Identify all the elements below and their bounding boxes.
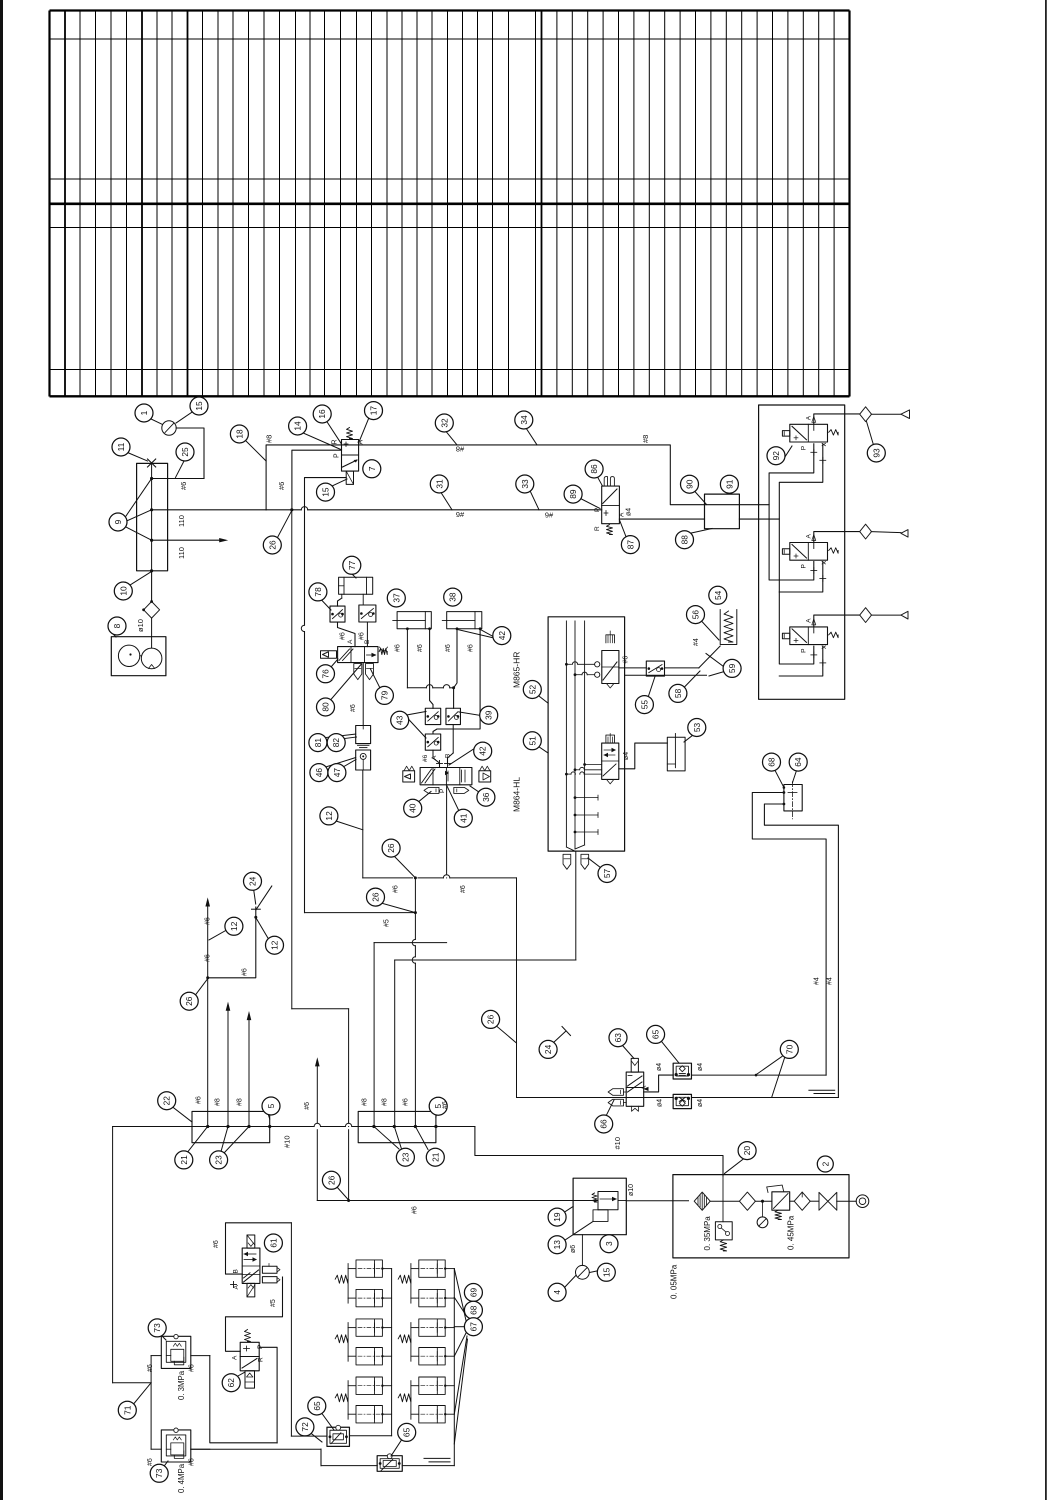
svg-text:18: 18	[234, 429, 244, 439]
svg-text:ø4: ø4	[697, 1099, 704, 1107]
item 46/47 box with drain	[356, 750, 371, 770]
clamp cylinder col2 row3	[419, 1319, 445, 1336]
leader 22	[172, 1107, 192, 1123]
node 26 balloon	[367, 888, 385, 906]
wire 63 A out	[644, 1075, 674, 1092]
internal rails M865	[565, 621, 567, 847]
svg-text:1: 1	[139, 410, 149, 415]
svg-text:0. 3MPa: 0. 3MPa	[177, 1370, 186, 1400]
node 61 balloon	[264, 1234, 282, 1252]
node 42 balloon	[474, 742, 492, 760]
svg-text:ø10: ø10	[136, 619, 145, 632]
node 5 balloon	[429, 1097, 447, 1115]
valve 92b blocked-port marks	[811, 570, 817, 572]
leader 23Rb	[394, 1127, 402, 1151]
pressure switch 0.35MPa	[715, 1222, 732, 1240]
svg-text:23: 23	[214, 1155, 224, 1165]
wire gauge to manifold	[176, 428, 204, 479]
svg-text:#6: #6	[467, 644, 474, 652]
wire 0.3MPa circuit drop	[290, 1223, 292, 1436]
cylinder 77	[339, 577, 373, 594]
svg-text:77: 77	[347, 560, 357, 570]
valve 92c blocked-port marks	[811, 654, 817, 656]
svg-text:#8: #8	[641, 435, 650, 443]
svg-text:41: 41	[458, 813, 468, 823]
valve 86 solenoid tabs	[604, 477, 607, 487]
wire 0.3MPa loop to valve 62 P	[210, 1356, 277, 1443]
valve 92c body	[790, 627, 828, 645]
flow control 39	[446, 708, 461, 724]
node 38 balloon	[444, 588, 462, 606]
rail pilot supply 2	[779, 519, 814, 664]
leader 42 cylinders	[458, 630, 495, 639]
leader 41	[447, 786, 460, 812]
wire 55 to corner	[665, 667, 699, 669]
leader 8	[113, 634, 116, 637]
wire 65c to left cylinder rail	[350, 1435, 392, 1437]
node 36 balloon	[477, 788, 495, 806]
svg-text:51: 51	[527, 736, 537, 746]
wire W7	[395, 959, 576, 961]
pipe break marks 70	[809, 1089, 835, 1091]
cylinder port dots	[406, 627, 409, 630]
svg-text:P: P	[439, 789, 446, 793]
node 15 balloon	[317, 483, 335, 501]
FRL filter (striped diamond)	[694, 1192, 710, 1210]
valve B side wire	[779, 562, 823, 593]
filter diamond	[144, 602, 160, 619]
valve station box right	[759, 405, 845, 699]
valve M864-HL body	[420, 768, 472, 785]
leader 51	[537, 746, 548, 754]
svg-text:59: 59	[727, 663, 737, 673]
svg-text:26: 26	[326, 1175, 336, 1185]
node 47 balloon	[328, 764, 346, 782]
svg-text:21: 21	[179, 1155, 189, 1165]
leader 56	[701, 621, 719, 641]
svg-text:#6: #6	[340, 632, 347, 640]
node 12 balloon	[320, 807, 338, 825]
svg-text:54: 54	[713, 590, 723, 600]
leader 53	[684, 734, 695, 743]
clamp cylinder col2 row5	[419, 1377, 445, 1394]
svg-text:70: 70	[784, 1044, 794, 1054]
leader 10	[130, 572, 152, 586]
svg-text:A: A	[347, 639, 354, 644]
svg-text:P: P	[801, 446, 808, 450]
compressor unit 8	[111, 637, 166, 676]
svg-text:A: A	[233, 1285, 240, 1290]
svg-text:B: B	[233, 1269, 240, 1273]
svg-text:#6: #6	[147, 1458, 154, 1466]
node 86 balloon	[585, 460, 603, 478]
node 68 balloon	[464, 1301, 482, 1319]
wire box down to gauge 4	[581, 1235, 583, 1266]
svg-text:#5: #5	[383, 919, 390, 927]
wire M864 P down	[446, 785, 448, 875]
svg-text:42: 42	[478, 746, 488, 756]
node 23 balloon	[396, 1148, 414, 1166]
FRL riser from header	[722, 1176, 724, 1222]
svg-text:#6: #6	[442, 1101, 449, 1109]
svg-text:#6: #6	[196, 1096, 203, 1104]
valve 62 spring	[245, 1330, 251, 1342]
leader 34	[526, 428, 537, 445]
node 16 balloon	[313, 405, 331, 423]
wire valve76 down to item 81/82	[362, 663, 364, 726]
leader 5L	[268, 1114, 270, 1120]
svg-text:15: 15	[601, 1267, 611, 1277]
valve 63 solenoid	[631, 1058, 638, 1072]
svg-text:#6: #6	[545, 511, 553, 520]
wire valve7 pilot line	[305, 478, 347, 626]
wire W4	[363, 877, 413, 879]
leader 23Ra	[374, 1127, 399, 1150]
node 34 balloon	[515, 411, 533, 429]
wire to flow control 65c	[291, 1435, 327, 1437]
flow control 43a	[425, 708, 440, 724]
wire M865 drain down	[575, 851, 577, 960]
svg-text:#6: #6	[147, 1364, 154, 1372]
svg-text:M864-HL: M864-HL	[512, 777, 522, 812]
wire	[755, 1200, 772, 1202]
svg-text:#6: #6	[242, 968, 249, 976]
svg-text:56: 56	[691, 610, 701, 620]
distribution manifold left (items 5/21/22/23)	[192, 1111, 270, 1142]
valve 63 body	[626, 1072, 644, 1106]
rail pilot supply 1	[769, 505, 814, 580]
node 91 balloon	[720, 475, 738, 493]
valve 76 right spring	[379, 649, 387, 655]
leader 26b	[395, 857, 416, 878]
svg-text:14: 14	[293, 421, 303, 431]
clamp cylinder col1 row2	[356, 1289, 382, 1306]
supply arrow riser #6 tall	[207, 906, 209, 1127]
node 19 balloon	[548, 1208, 566, 1226]
svg-text:20: 20	[742, 1146, 752, 1156]
valve 92b left cap	[782, 549, 789, 555]
leader 80	[331, 665, 362, 701]
node 9 balloon	[109, 513, 127, 531]
cylinder bank springs	[335, 1275, 348, 1283]
valve 61 side solenoids	[262, 1266, 277, 1273]
svg-text:#4: #4	[813, 977, 820, 985]
leader 12a	[333, 820, 363, 830]
svg-text:88: 88	[680, 535, 690, 545]
cylinder 53	[667, 737, 685, 771]
wires box91 outputs	[705, 504, 759, 506]
node 26 balloon	[382, 839, 400, 857]
leader 36	[470, 786, 481, 794]
riser #8 left	[373, 943, 375, 1127]
svg-text:B: B	[364, 640, 371, 644]
parts table grid	[50, 11, 850, 397]
svg-text:39: 39	[484, 710, 494, 720]
leader 21L	[188, 1127, 208, 1152]
svg-text:ø4: ø4	[626, 508, 633, 516]
node 40 balloon	[404, 799, 422, 817]
leader 11	[128, 453, 148, 462]
node 59 balloon	[723, 659, 741, 677]
node 65 balloon	[647, 1025, 665, 1043]
valve 61 top pilot	[247, 1235, 255, 1248]
svg-text:#6: #6	[445, 644, 452, 652]
pressure gauge 4	[576, 1265, 590, 1279]
svg-text:93: 93	[871, 448, 881, 458]
valve station box M865	[548, 617, 625, 851]
node 26 balloon	[180, 992, 198, 1010]
svg-text:12: 12	[324, 811, 334, 821]
svg-text:ø10: ø10	[628, 1184, 635, 1196]
flow control 78b	[359, 605, 376, 622]
node 54 balloon	[709, 586, 727, 604]
wire W3 through box	[573, 1200, 598, 1202]
node 92 balloon	[767, 447, 785, 465]
mufflers under M864	[424, 787, 439, 793]
svg-text:R: R	[332, 439, 339, 444]
svg-text:ø4: ø4	[657, 1099, 664, 1107]
wire corner to spring 54	[699, 646, 720, 668]
svg-text:#8: #8	[362, 1098, 369, 1106]
wire second out	[625, 674, 707, 676]
leader 15b	[330, 479, 347, 487]
svg-text:52: 52	[527, 685, 537, 695]
leader 81	[322, 734, 356, 738]
leader 25	[176, 461, 185, 478]
svg-text:#6: #6	[189, 1458, 196, 1466]
cylinder 37	[397, 612, 431, 629]
svg-text:66: 66	[599, 1119, 609, 1129]
wire main 63 line	[517, 1097, 627, 1099]
svg-text:65: 65	[312, 1401, 322, 1411]
svg-text:12: 12	[270, 940, 280, 950]
node 64 balloon	[789, 753, 807, 771]
svg-text:68: 68	[468, 1305, 478, 1315]
outlet port symbol	[856, 1195, 869, 1208]
svg-text:9: 9	[113, 519, 123, 524]
svg-text:110: 110	[177, 515, 186, 527]
svg-text:73: 73	[152, 1323, 162, 1333]
svg-text:8: 8	[112, 623, 122, 628]
node 15 balloon	[190, 397, 208, 415]
leader 18	[245, 440, 266, 461]
distribution manifold right (items 5/21/23)	[358, 1111, 436, 1142]
svg-text:#6: #6	[277, 482, 286, 490]
svg-text:P: P	[257, 1345, 264, 1349]
svg-text:2: 2	[820, 1161, 830, 1166]
leader 40	[417, 792, 431, 804]
leader 63	[623, 1046, 635, 1059]
FRL unit box 2	[673, 1175, 849, 1258]
svg-text:16: 16	[317, 409, 327, 419]
svg-text:#6: #6	[304, 1102, 311, 1110]
node 26 balloon	[482, 1010, 500, 1028]
valve 92a left cap	[782, 431, 789, 437]
leader 70a	[756, 1057, 782, 1075]
node 32 balloon	[435, 414, 453, 432]
node 10 balloon	[114, 582, 132, 600]
valve 92a blocked-port marks	[811, 451, 817, 453]
leader 26f	[497, 1027, 517, 1044]
wire pilot P line from W2 riser	[292, 450, 342, 510]
leader 47	[341, 760, 357, 769]
valve 61 body	[242, 1248, 260, 1283]
svg-text:26: 26	[386, 843, 396, 853]
svg-text:0. 35MPa: 0. 35MPa	[703, 1216, 712, 1251]
valve C side wire	[779, 646, 823, 676]
valve 92a spring	[829, 430, 838, 436]
leader 70b	[772, 1058, 785, 1097]
valve 7 spring	[347, 428, 353, 439]
node 25 balloon	[176, 443, 194, 461]
svg-text:A: A	[805, 534, 812, 539]
leader 32	[446, 432, 457, 445]
riser #8 mid	[394, 960, 396, 1127]
wire down to W4	[362, 770, 364, 878]
pressure regulator 73 (0. 3MPa)	[161, 1336, 191, 1368]
wire manifold arrow output	[152, 539, 225, 541]
leader 14	[302, 433, 342, 450]
node 82 balloon	[327, 734, 345, 752]
svg-text:#8: #8	[382, 1098, 389, 1106]
flow control 65d	[377, 1456, 402, 1472]
svg-text:37: 37	[391, 593, 401, 603]
leader 9b	[127, 510, 152, 521]
valve 76 body	[338, 647, 378, 663]
leader 13	[564, 1222, 594, 1242]
svg-text:26: 26	[486, 1014, 496, 1024]
clamp cylinder col2 row2	[419, 1289, 445, 1306]
leader 77	[352, 574, 356, 578]
flow control 65c	[327, 1427, 350, 1446]
svg-text:24: 24	[543, 1044, 553, 1054]
node 72 balloon	[296, 1418, 314, 1436]
clamp cylinder col1 row1	[356, 1260, 382, 1277]
clamp cylinder col1 row4	[356, 1348, 382, 1365]
port plug mark valve 61	[233, 1282, 235, 1288]
node 58 balloon	[669, 684, 687, 702]
svg-text:#6: #6	[456, 510, 464, 519]
valve 63 mufflers	[608, 1089, 623, 1096]
svg-text:R: R	[258, 1357, 265, 1362]
svg-text:43: 43	[395, 715, 405, 725]
leader 26a	[278, 511, 292, 538]
valve 62 body	[240, 1342, 259, 1371]
leader 26e	[337, 1187, 349, 1201]
page left border	[0, 0, 3, 1500]
node 22 balloon	[158, 1092, 176, 1110]
exhaust triangle 2	[901, 530, 908, 538]
FRL lubricator diamond	[794, 1192, 810, 1210]
svg-text:11: 11	[116, 442, 126, 451]
svg-text:38: 38	[448, 592, 458, 602]
svg-text:A: A	[232, 1355, 239, 1360]
leader 79	[371, 669, 381, 688]
flow control 65b	[673, 1094, 691, 1108]
svg-text:#5: #5	[270, 1299, 277, 1307]
svg-text:15: 15	[194, 401, 204, 411]
svg-text:ø6: ø6	[570, 1245, 577, 1253]
svg-text:76: 76	[321, 669, 331, 679]
leader 46	[323, 758, 356, 769]
svg-text:#8: #8	[456, 445, 464, 454]
svg-text:87: 87	[625, 540, 635, 550]
valve M864 left pilot	[403, 771, 415, 782]
leader 43	[407, 712, 427, 716]
node dots on manifold	[150, 477, 153, 480]
leader 62	[237, 1372, 245, 1377]
node 67 balloon	[464, 1318, 482, 1336]
svg-text:#6: #6	[395, 644, 402, 652]
leader 33	[528, 487, 539, 510]
svg-text:58: 58	[673, 688, 683, 698]
leader 72	[310, 1433, 322, 1443]
wire 0.4MPa output	[191, 1448, 321, 1450]
main header pipe #10	[113, 1126, 315, 1128]
leader 26d	[195, 980, 207, 996]
svg-text:15: 15	[321, 487, 331, 497]
node 12 balloon	[266, 936, 284, 954]
valve 86 body	[602, 486, 620, 524]
node 21 balloon	[426, 1148, 444, 1166]
svg-text:ø4: ø4	[623, 752, 630, 760]
flow control 55	[646, 661, 664, 676]
svg-text:92: 92	[771, 451, 781, 461]
node 51 balloon	[523, 732, 541, 750]
svg-text:67: 67	[468, 1322, 478, 1332]
svg-text:71: 71	[122, 1405, 132, 1415]
leader 64	[793, 771, 797, 783]
node 78 balloon	[309, 583, 327, 601]
page right border	[1045, 0, 1047, 1500]
svg-text:13: 13	[552, 1240, 562, 1250]
svg-text:ø4: ø4	[697, 1063, 704, 1071]
junction box 64	[784, 785, 802, 811]
svg-text:31: 31	[434, 479, 444, 489]
node 80 balloon	[317, 698, 335, 716]
svg-text:#10: #10	[282, 1135, 291, 1148]
node 76 balloon	[317, 665, 335, 683]
svg-text:0. 45MPa: 0. 45MPa	[787, 1215, 796, 1250]
filter 81/82 box	[356, 726, 371, 744]
svg-text:36: 36	[481, 792, 491, 802]
node 42 balloon	[493, 627, 511, 645]
node 11 balloon	[112, 438, 130, 456]
leader 55	[648, 677, 655, 698]
svg-text:46: 46	[314, 768, 324, 778]
leader 23La	[221, 1127, 228, 1152]
regulator port wires	[151, 1355, 161, 1357]
node 37 balloon	[387, 589, 405, 607]
leader 57	[588, 858, 603, 870]
riser junction to manifold #6	[414, 878, 416, 940]
node 1 balloon	[135, 404, 153, 422]
cylinder rail left column	[391, 1269, 393, 1436]
node 46 balloon	[310, 764, 328, 782]
supply arrow riser #8 a	[227, 1011, 229, 1127]
leader 20	[725, 1159, 745, 1174]
svg-text:19: 19	[552, 1212, 562, 1222]
node 87 balloon	[621, 536, 639, 554]
leader 82	[341, 737, 357, 739]
node 77 balloon	[343, 556, 361, 574]
node 24 balloon	[539, 1040, 557, 1058]
wire valve 61 A to valve 62 A	[226, 1277, 283, 1351]
wires flow controls to valve 76	[338, 622, 356, 647]
node 70 balloon	[780, 1040, 798, 1058]
wire loop right riser B	[764, 804, 838, 1098]
wire valve52 out to flow control 55	[619, 667, 646, 669]
